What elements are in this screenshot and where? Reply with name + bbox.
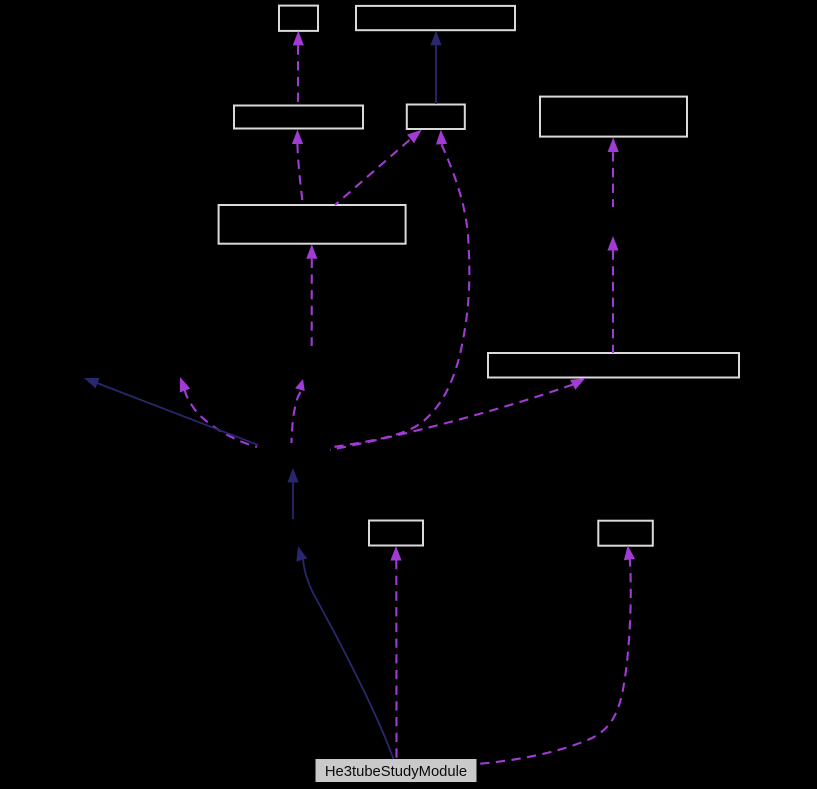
svg-text:He3tubeStudyModule: He3tubeStudyModule [325, 764, 467, 780]
